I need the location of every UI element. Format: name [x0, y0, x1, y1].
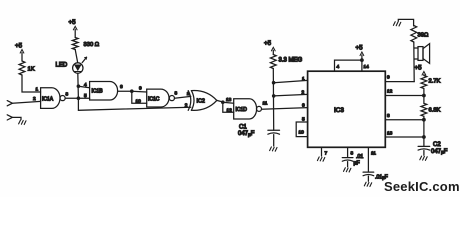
- resistor R2 330 ohm: [72, 38, 99, 50]
- svg-text:2.7K: 2.7K: [429, 79, 441, 85]
- svg-text:+5: +5: [264, 40, 272, 47]
- svg-text:047µF: 047µF: [431, 149, 448, 156]
- op-amp gate IC1C NAND: [147, 89, 175, 107]
- power +5 (R5): [415, 65, 426, 76]
- ground pin7: [317, 157, 324, 161]
- svg-text:2: 2: [33, 96, 36, 102]
- wire IC1D out to IC3 pin6: [262, 108, 308, 110]
- op-amp gate IC1D NAND: [234, 99, 262, 119]
- op-amp gate IC1B NAND: [90, 82, 118, 101]
- capacitor C1 label: [238, 125, 255, 138]
- wire IC1B out to node B: [118, 90, 132, 92]
- wire IC2 out to node C: [217, 100, 223, 102]
- node D junction pin1: [272, 81, 276, 85]
- svg-text:IC1A: IC1A: [42, 96, 54, 102]
- svg-text:µF: µF: [354, 161, 360, 167]
- wire ground to R4: [398, 19, 413, 26]
- capacitor C1 .047uF: [268, 130, 280, 146]
- wire node E to IC3 pin2: [274, 94, 308, 96]
- svg-text:6: 6: [120, 84, 123, 90]
- svg-text:7: 7: [325, 151, 328, 157]
- power +5 (R3): [264, 40, 275, 55]
- svg-text:39Ω: 39Ω: [418, 33, 429, 39]
- wire IC3 pin4 top: [335, 60, 362, 71]
- svg-text:10: 10: [299, 130, 305, 136]
- wire node B to IC1C pin9: [132, 90, 147, 93]
- svg-text:8: 8: [387, 113, 390, 119]
- wire node G to IC3 pin12: [385, 95, 424, 97]
- ground speaker: [393, 22, 400, 26]
- svg-text:+5: +5: [15, 43, 23, 50]
- resistor R5 2.7K: [421, 76, 441, 89]
- wire node A to IC1B pin5: [78, 97, 89, 99]
- wire speaker to IC3 pin9: [385, 81, 414, 83]
- connector J1 shield: [7, 115, 21, 120]
- svg-text:9: 9: [387, 75, 390, 81]
- svg-text:1K: 1K: [28, 67, 35, 73]
- svg-text:4: 4: [84, 82, 87, 88]
- wire node C to IC1D pin12 loop: [223, 102, 234, 112]
- speaker SPK1: [414, 44, 429, 64]
- wire R5 to node G: [423, 89, 425, 104]
- resistor R4 39 ohm: [411, 26, 429, 43]
- wire pin5-pin10 strap: [296, 122, 307, 137]
- svg-text:IC3: IC3: [334, 107, 344, 114]
- wire node A to IC2 pin2 (long feedback): [78, 98, 190, 110]
- svg-text:10: 10: [136, 98, 142, 104]
- svg-text:6.8K: 6.8K: [429, 108, 441, 114]
- svg-text:9: 9: [139, 86, 142, 92]
- node I junction pin13: [422, 135, 426, 139]
- svg-text:IC1B: IC1B: [92, 89, 104, 95]
- wire IC3 pin14 top: [361, 60, 363, 71]
- wire node H to IC3 pin8: [385, 119, 424, 121]
- wire R3 down to C1: [272, 69, 274, 131]
- wire R1 to IC1A pin1: [22, 75, 41, 92]
- svg-text:3: 3: [66, 92, 69, 98]
- wire node A to IC1B pin4: [78, 86, 89, 88]
- svg-text:C2: C2: [433, 142, 441, 148]
- wire IC3 pin3: [347, 147, 349, 157]
- svg-text:8: 8: [175, 91, 178, 97]
- power +5 (IC3): [356, 45, 364, 61]
- svg-text:+5: +5: [356, 45, 364, 52]
- svg-text:047µF: 047µF: [238, 131, 255, 138]
- connector J1 input signal: [7, 101, 40, 106]
- svg-text:+5: +5: [415, 65, 423, 72]
- node A junction upper: [77, 84, 81, 88]
- op-amp gate IC2 XOR: [188, 91, 217, 111]
- ground C3: [344, 168, 351, 172]
- wire IC1C out to IC2 pin1: [175, 96, 191, 98]
- op-amp gate IC1A NAND: [41, 88, 66, 109]
- svg-text:1: 1: [36, 87, 39, 93]
- svg-text:11: 11: [371, 151, 376, 157]
- wire IC3 pin11: [367, 147, 369, 172]
- wire R2 to LED: [75, 50, 78, 63]
- node F junction pin14: [360, 58, 364, 62]
- LED D1: [56, 57, 87, 73]
- node E junction pin2: [272, 94, 276, 98]
- svg-text:6: 6: [302, 103, 305, 109]
- svg-text:5: 5: [84, 93, 87, 99]
- svg-text:2: 2: [185, 102, 188, 108]
- node A junction lower: [77, 96, 81, 100]
- svg-text:IC1C: IC1C: [148, 96, 160, 102]
- svg-text:+5: +5: [69, 19, 77, 26]
- svg-text:C1: C1: [239, 125, 247, 131]
- svg-text:IC2: IC2: [197, 99, 205, 105]
- resistor R1 1K: [19, 61, 35, 75]
- wire node I to IC3 pin13: [385, 136, 424, 138]
- resistor R3 3.3 MEG: [270, 55, 302, 69]
- wire LED to node A: [77, 73, 80, 98]
- svg-text:11: 11: [263, 101, 268, 107]
- svg-text:14: 14: [364, 64, 370, 70]
- wire node B to IC1C pin10 loop: [132, 91, 147, 103]
- wire IC3 pin7: [321, 147, 323, 156]
- node G junction pin12: [422, 94, 426, 98]
- svg-text:4: 4: [337, 64, 340, 70]
- svg-text:12: 12: [387, 89, 393, 95]
- svg-text:1: 1: [302, 76, 305, 82]
- ground C4: [364, 182, 371, 186]
- capacitor C4 .01uF: [363, 172, 388, 181]
- wire node D to IC3 pin1: [274, 80, 308, 82]
- svg-text:2: 2: [302, 90, 305, 96]
- node H junction pin8: [422, 118, 426, 122]
- svg-text:12: 12: [227, 107, 233, 113]
- svg-text:SeekIC.com: SeekIC.com: [384, 179, 460, 194]
- op-amp IC3 box: [308, 71, 386, 147]
- svg-text:LED: LED: [56, 63, 68, 69]
- svg-text:3.3 MEG: 3.3 MEG: [279, 58, 303, 64]
- svg-text:13: 13: [226, 97, 232, 103]
- resistor R6 6.8K: [421, 103, 441, 116]
- wire node C to IC1D pin13: [223, 102, 234, 103]
- wire R4 to speaker column: [413, 42, 415, 82]
- svg-text:IC1D: IC1D: [236, 107, 248, 113]
- capacitor C2 .047uF: [418, 142, 448, 156]
- wire R6 to C2: [423, 116, 425, 146]
- svg-text:.01: .01: [356, 154, 363, 160]
- svg-text:13: 13: [387, 131, 393, 137]
- ground input shield: [19, 120, 26, 124]
- power +5 (R1 pull-up): [15, 43, 24, 62]
- capacitor C3 .01uF: [342, 154, 363, 167]
- ground C2: [420, 156, 427, 160]
- node B junction: [130, 89, 134, 93]
- svg-text:330 Ω: 330 Ω: [84, 42, 100, 48]
- wire IC1A out to node A: [65, 97, 78, 99]
- ground C1: [270, 147, 277, 151]
- power +5 (LED): [69, 19, 78, 38]
- node C junction: [221, 100, 225, 104]
- svg-text:3: 3: [351, 151, 354, 157]
